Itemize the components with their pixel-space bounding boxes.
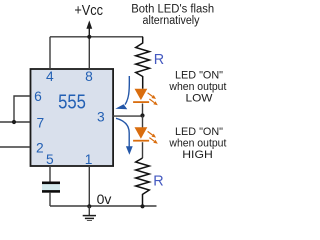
- wire LED D1 to output node: [142, 104, 144, 116]
- svg-text:555: 555: [58, 90, 86, 113]
- wire pin 5 to capacitor: [49, 166, 51, 182]
- wire pin 8 to top rail: [88, 37, 90, 69]
- wire pin 2 to left edge: [0, 146, 30, 148]
- wire top rail: [50, 36, 143, 38]
- node junction ground: [87, 204, 91, 208]
- node junction Vcc: [87, 35, 91, 39]
- node junction pin6/pin7: [12, 120, 16, 124]
- wire pin 3 to output node: [113, 115, 143, 117]
- ground: [83, 206, 96, 221]
- svg-text:LED "ON": LED "ON": [175, 126, 223, 138]
- svg-text:R: R: [153, 173, 163, 189]
- svg-text:2: 2: [36, 141, 44, 156]
- node junction output: [140, 113, 144, 117]
- resistor R2: [136, 158, 150, 206]
- svg-text:when output: when output: [168, 81, 226, 93]
- svg-text:7: 7: [37, 116, 45, 131]
- caption LED ON when output HIGH: [168, 126, 226, 161]
- power +Vcc arrow: [86, 20, 92, 37]
- wire pin 6 stub: [14, 96, 30, 122]
- wire pin 4 to top rail: [49, 37, 51, 69]
- svg-text:LOW: LOW: [186, 93, 214, 105]
- svg-text:3: 3: [97, 109, 105, 124]
- wire pin 7 to left edge: [0, 121, 30, 123]
- svg-text:alternatively: alternatively: [143, 15, 200, 27]
- caption both LEDs flash: [131, 3, 214, 27]
- svg-text:8: 8: [85, 69, 93, 84]
- LED D1: [133, 89, 149, 103]
- capacitor C1: [42, 182, 60, 193]
- LED D1 emission arrows: [148, 93, 158, 105]
- svg-text:+Vcc: +Vcc: [74, 1, 103, 18]
- wire output node to LED D2: [142, 116, 144, 128]
- node junction R2 bottom: [140, 204, 144, 208]
- svg-text:when output: when output: [168, 137, 226, 149]
- svg-text:Both LED's flash: Both LED's flash: [131, 3, 214, 15]
- svg-text:4: 4: [46, 69, 54, 84]
- svg-text:1: 1: [85, 152, 93, 167]
- IC U1 555 body: [31, 69, 114, 166]
- wire LED D2 to resistor R2: [142, 142, 144, 158]
- LED D2 emission arrows: [148, 131, 158, 143]
- svg-text:HIGH: HIGH: [182, 149, 213, 161]
- wire pin 1 to bottom rail: [88, 166, 90, 206]
- resistor R1: [136, 37, 150, 89]
- wire bottom rail: [50, 205, 157, 207]
- svg-text:0v: 0v: [97, 191, 112, 207]
- svg-text:6: 6: [34, 89, 42, 104]
- svg-text:R: R: [154, 52, 164, 68]
- annotation arrow output high: [116, 118, 133, 155]
- LED D2: [133, 127, 149, 141]
- svg-text:LED "ON": LED "ON": [175, 69, 223, 81]
- caption LED ON when output LOW: [168, 69, 226, 104]
- annotation arrow output low: [115, 76, 129, 109]
- svg-text:5: 5: [46, 152, 54, 167]
- wire capacitor to bottom rail: [49, 193, 51, 206]
